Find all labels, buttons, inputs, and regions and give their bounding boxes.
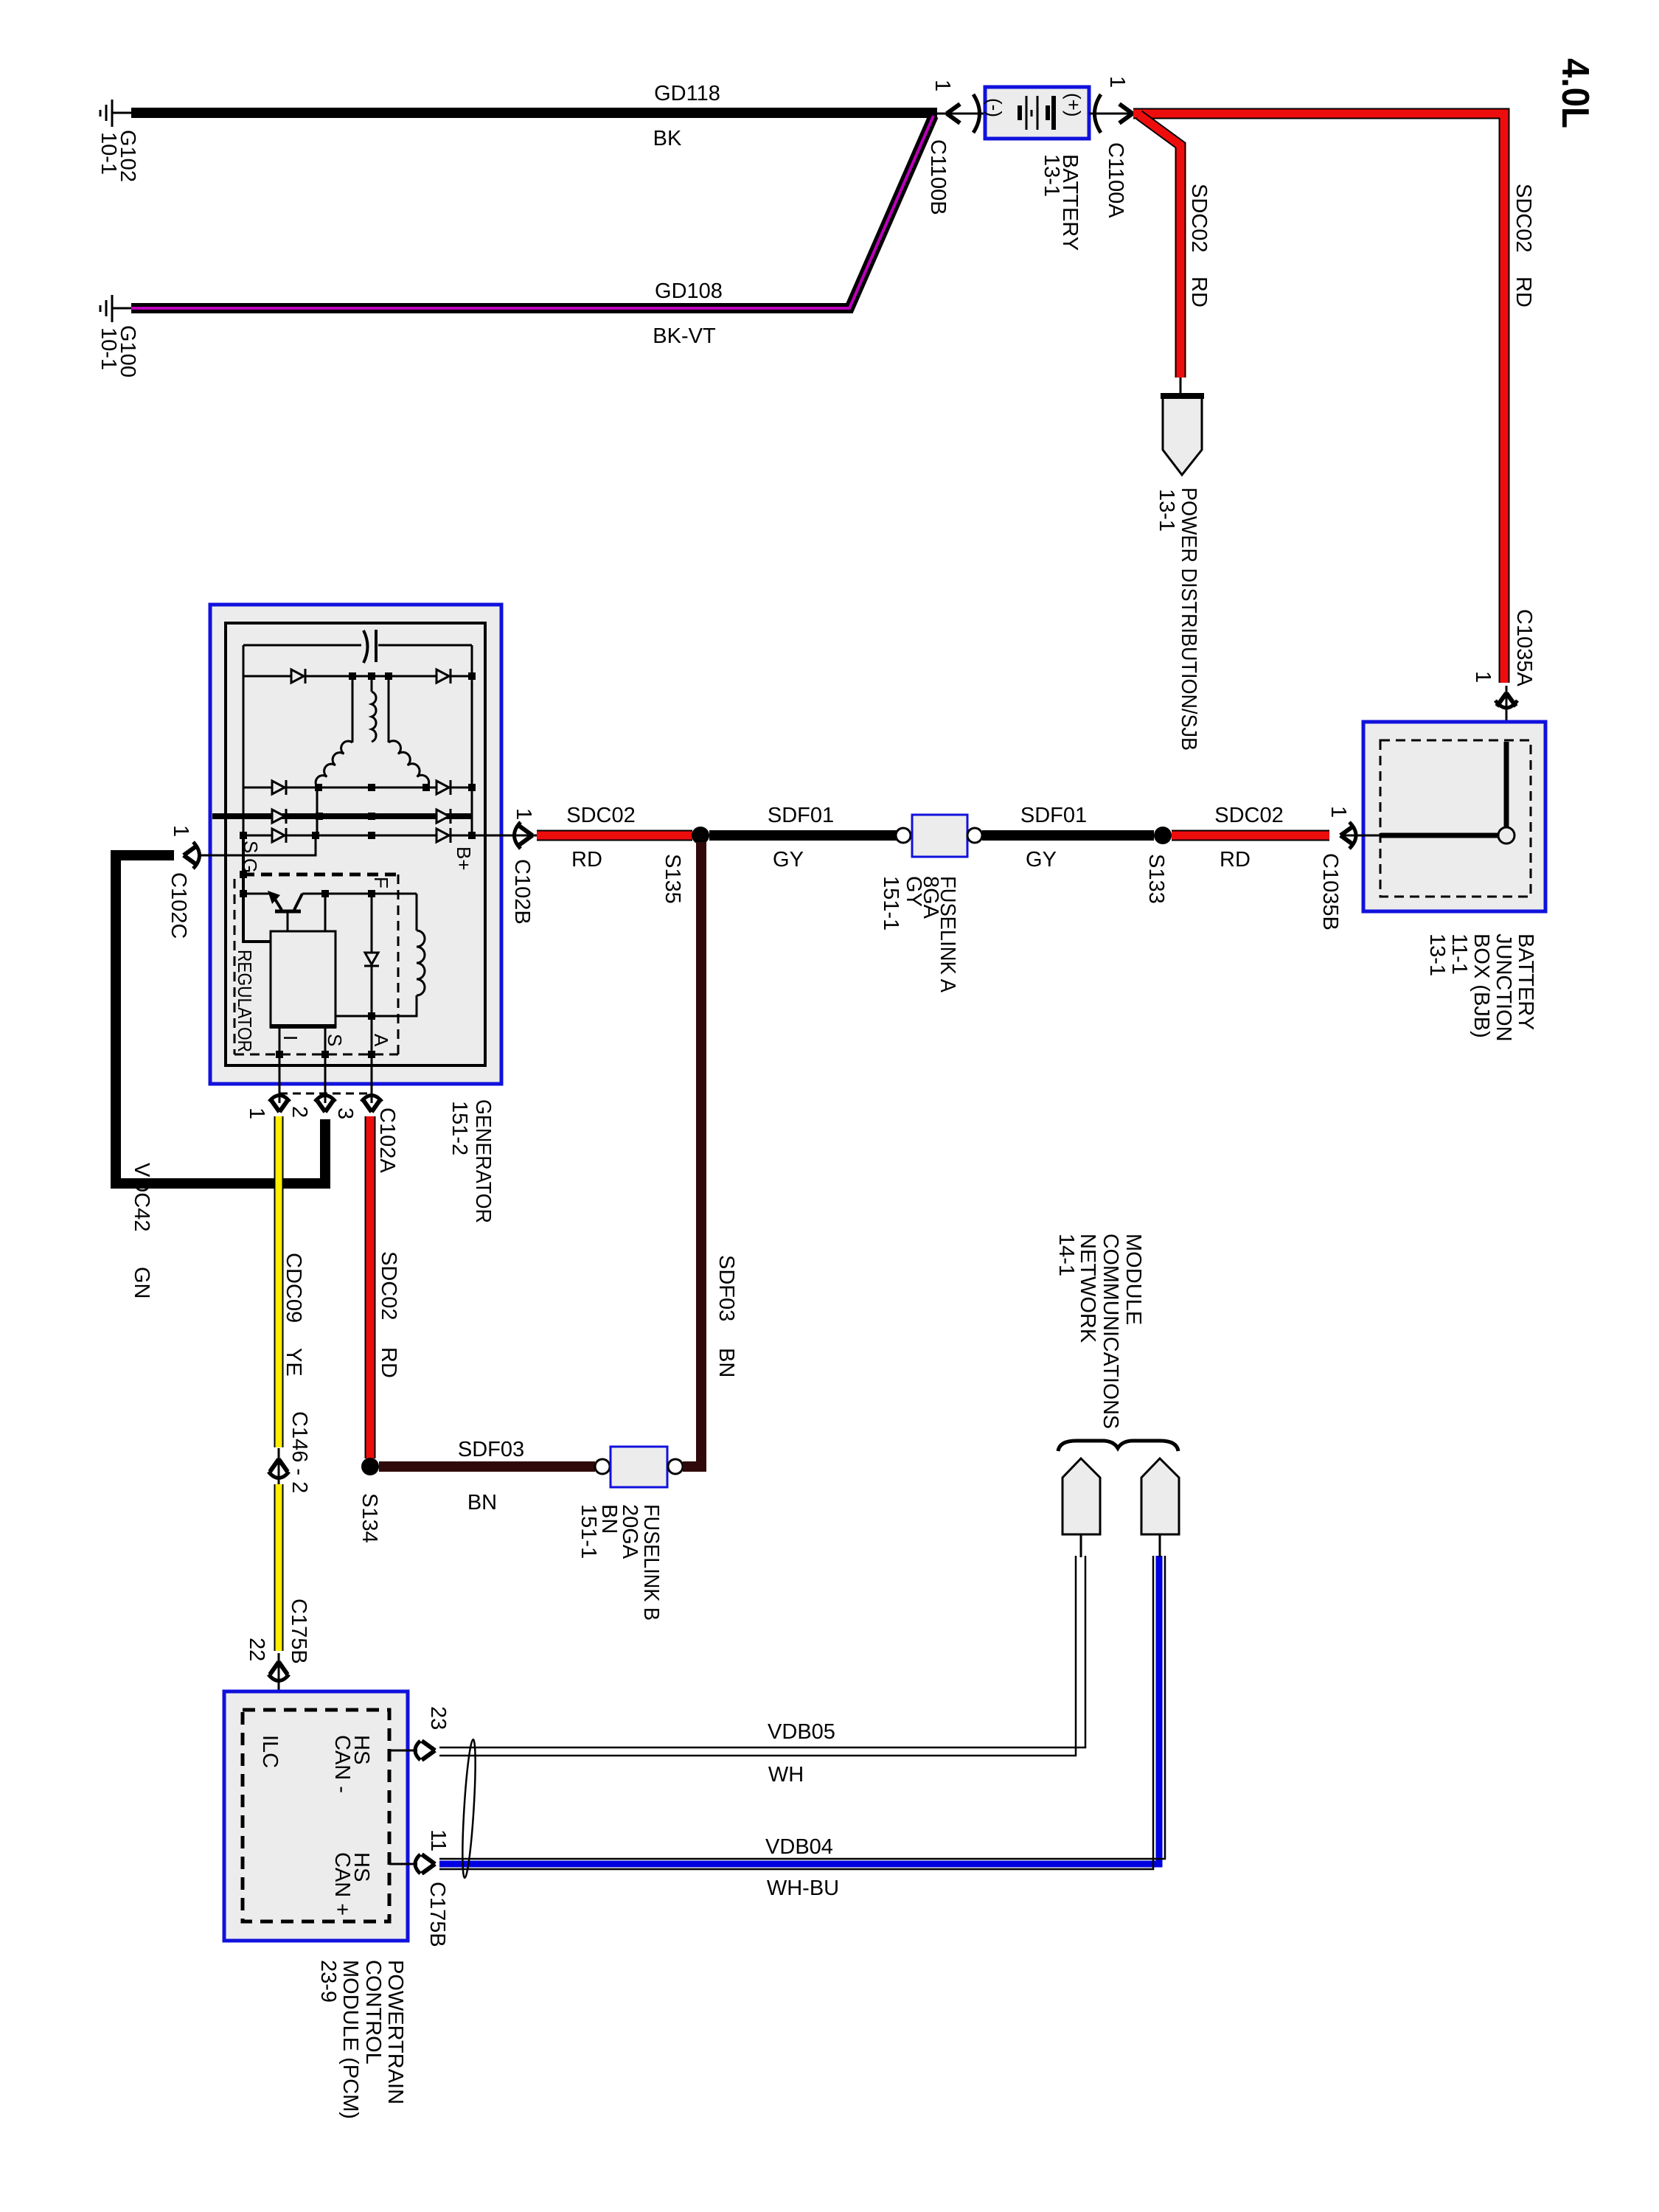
wire SDF03 BN S134 to fuselink B — [379, 1461, 595, 1472]
connector C146-2 — [268, 1459, 289, 1478]
svg-text:BK-VT: BK-VT — [653, 324, 716, 348]
svg-text:GN: GN — [130, 1267, 153, 1299]
brace — [1058, 1441, 1178, 1451]
svg-text:SDF03: SDF03 — [458, 1438, 524, 1461]
connector pin 2 arrow — [315, 1096, 335, 1113]
diode D5 — [272, 809, 286, 824]
svg-text:COMMUNICATIONS: COMMUNICATIONS — [1099, 1234, 1122, 1429]
svg-text:11: 11 — [426, 1829, 450, 1851]
wire SDF01 GY S135 to fuselink A — [709, 830, 897, 841]
svg-text:GY: GY — [773, 848, 804, 872]
svg-text:22: 22 — [245, 1638, 268, 1661]
svg-text:VDB05: VDB05 — [768, 1720, 835, 1744]
terminal network left — [1062, 1458, 1100, 1534]
node pin A — [368, 1051, 375, 1058]
wire BJB internal bus — [1504, 742, 1509, 829]
svg-text:GD108: GD108 — [655, 279, 723, 303]
svg-text:14-1: 14-1 — [1054, 1234, 1078, 1276]
wire GD118 BK — [131, 108, 937, 118]
svg-text:YE: YE — [282, 1348, 305, 1377]
box BATTERY JUNCTION BOX (BJB) — [1363, 722, 1545, 911]
connector pin 1 arrow — [269, 1096, 290, 1113]
connector C1035B — [1340, 822, 1356, 849]
svg-text:GY: GY — [1026, 848, 1057, 872]
svg-text:2: 2 — [288, 1106, 311, 1118]
regulator dashed boundary — [234, 874, 398, 1054]
svg-text:GY: GY — [902, 876, 925, 907]
node G junction — [240, 871, 247, 878]
svg-text:VDB04: VDB04 — [765, 1835, 833, 1859]
svg-text:13-1: 13-1 — [1155, 489, 1178, 532]
node row2 junctions — [315, 784, 476, 791]
wire pin 23 lead — [389, 1750, 417, 1752]
svg-text:1: 1 — [169, 825, 192, 837]
wire CDC09 YE C146-2 to C175B — [274, 1484, 284, 1651]
svg-text:1: 1 — [1105, 76, 1129, 88]
svg-text:BATTERY: BATTERY — [1514, 933, 1537, 1030]
wire stator tap to rows — [316, 787, 319, 835]
fuselink A — [896, 828, 911, 843]
svg-text:10-1: 10-1 — [97, 327, 120, 370]
diode D4 — [437, 780, 451, 795]
wire — [1343, 835, 1380, 837]
wire GD108 BK-VT — [131, 116, 933, 308]
svg-text:S: S — [324, 1034, 346, 1046]
wire CDC09 YE pin1 to C146-2 — [274, 1116, 284, 1447]
node A junction — [368, 1012, 375, 1020]
capacitor C1 — [364, 630, 368, 663]
svg-text:RD: RD — [571, 848, 602, 872]
wire VDB04 WH-BU — [439, 1556, 1159, 1864]
svg-text:GD118: GD118 — [654, 82, 720, 105]
svg-text:1: 1 — [1471, 671, 1495, 683]
svg-text:1: 1 — [512, 808, 535, 820]
diode D3 — [272, 780, 286, 795]
svg-text:GENERATOR: GENERATOR — [471, 1099, 495, 1223]
wire pin 11 lead — [389, 1863, 417, 1865]
node S133 — [1154, 827, 1172, 844]
svg-text:C146 - 2: C146 - 2 — [288, 1411, 311, 1493]
wire VDB05 WH — [439, 1556, 1081, 1752]
node BJB terminal circle — [1498, 827, 1514, 844]
wire VDC42 GN — [116, 855, 325, 1183]
connector pin 3 arrow — [361, 1096, 382, 1113]
svg-text:POWER DISTRIBUTION/SJB: POWER DISTRIBUTION/SJB — [1177, 487, 1200, 751]
svg-text:C175B: C175B — [425, 1882, 449, 1947]
diode D2 — [437, 669, 451, 684]
svg-text:RD: RD — [377, 1347, 400, 1378]
connector C102 dashed — [279, 1093, 372, 1095]
svg-text:(+): (+) — [1062, 93, 1085, 117]
svg-text:MODULE: MODULE — [1121, 1234, 1145, 1325]
node S135 — [692, 827, 709, 844]
diode D1 — [291, 669, 305, 684]
connector C1035A — [1495, 686, 1517, 742]
diode D6 — [437, 809, 451, 824]
svg-text:SDC02: SDC02 — [566, 804, 636, 827]
connector C1100A — [1089, 94, 1135, 133]
ground G100 — [100, 295, 133, 322]
wire diode row 4 — [243, 835, 504, 837]
svg-text:1: 1 — [931, 80, 954, 91]
svg-text:BOX (BJB): BOX (BJB) — [1470, 933, 1493, 1038]
wire SDF03 BN fuselink B to S135 — [683, 842, 701, 1467]
wire left rail to regulator — [243, 835, 271, 942]
svg-text:C1100B: C1100B — [926, 139, 950, 215]
svg-text:S134: S134 — [358, 1493, 381, 1543]
wire S pin drop — [324, 894, 327, 931]
terminal POWER DISTRIBUTION/SJB — [1163, 396, 1202, 475]
svg-text:CAN +: CAN + — [330, 1852, 354, 1916]
svg-text:151-1: 151-1 — [577, 1504, 600, 1559]
wire diode row 3 (thick) — [212, 813, 472, 819]
wire SDF01 GY fuselink A to S133 — [982, 830, 1154, 841]
wire SDC02 RD generator to S135 — [537, 830, 692, 841]
winding L3 (right) — [389, 741, 429, 788]
svg-text:A: A — [370, 1034, 392, 1047]
svg-text:SDF01: SDF01 — [768, 804, 834, 827]
ground G102 — [100, 100, 133, 127]
svg-text:CDC09: CDC09 — [282, 1253, 305, 1323]
wire SDC02 RD pin3 to S134 — [365, 1116, 376, 1458]
svg-text:CAN -: CAN - — [330, 1735, 354, 1793]
twisted pair symbol — [460, 1739, 478, 1878]
svg-text:WH-BU: WH-BU — [767, 1877, 839, 1900]
svg-text:C1035A: C1035A — [1512, 609, 1536, 686]
node F junctions — [321, 890, 329, 897]
svg-text:C102B: C102B — [510, 859, 534, 925]
wire diode row 2 — [243, 787, 472, 789]
svg-text:SDF01: SDF01 — [1020, 804, 1087, 827]
svg-text:SDC02: SDC02 — [377, 1251, 400, 1321]
svg-text:FUSELINK B: FUSELINK B — [639, 1504, 663, 1621]
node pin I — [276, 1051, 283, 1058]
svg-text:3: 3 — [333, 1107, 357, 1119]
svg-text:C175B: C175B — [287, 1599, 310, 1664]
transistor Q1 — [272, 894, 302, 931]
svg-text:RD: RD — [1220, 848, 1251, 872]
terminal network right — [1141, 1458, 1179, 1534]
wire G dashed line — [243, 873, 398, 877]
diode D9 — [371, 894, 373, 1054]
node row3 junctions — [316, 813, 375, 820]
svg-text:1: 1 — [1326, 806, 1350, 818]
svg-text:RD: RD — [1187, 276, 1211, 307]
connector C1100B — [937, 94, 985, 133]
svg-text:BK: BK — [653, 127, 682, 150]
svg-text:JUNCTION: JUNCTION — [1492, 933, 1515, 1042]
svg-text:SDC02: SDC02 — [1214, 804, 1284, 827]
node pin S — [321, 1051, 329, 1058]
node row1 junctions — [349, 672, 476, 680]
svg-text:C1035B: C1035B — [1318, 853, 1342, 931]
svg-text:I: I — [279, 1035, 302, 1040]
connector pin 23 arrow — [415, 1741, 435, 1760]
wire stator taps — [352, 676, 354, 742]
svg-text:1: 1 — [245, 1107, 268, 1119]
diode D7 — [272, 828, 286, 843]
regulator box — [271, 931, 335, 1027]
svg-text:13-1: 13-1 — [1425, 933, 1449, 976]
wire S line to C102C — [198, 835, 316, 855]
svg-text:23: 23 — [426, 1706, 450, 1730]
svg-text:VDC42: VDC42 — [130, 1163, 153, 1232]
svg-text:B+: B+ — [453, 846, 475, 871]
wire diode row 1 — [243, 675, 472, 678]
svg-text:S135: S135 — [661, 854, 684, 904]
connector C102B — [504, 822, 537, 849]
svg-text:SDC02: SDC02 — [1512, 184, 1535, 253]
node S134 — [361, 1458, 379, 1475]
box ILC dashed — [243, 1710, 389, 1921]
svg-text:SDC02: SDC02 — [1187, 184, 1211, 253]
svg-text:151-2: 151-2 — [448, 1101, 471, 1155]
wire regulator pin leads — [279, 1027, 281, 1103]
box generator inner case — [226, 623, 485, 1065]
svg-text:C102A: C102A — [375, 1107, 399, 1173]
wire — [1180, 378, 1182, 395]
wire rectifier frame — [243, 645, 472, 835]
connector C102C — [184, 842, 200, 869]
fuselink B — [595, 1459, 610, 1474]
svg-text:(-): (-) — [984, 98, 1006, 117]
svg-text:11-1: 11-1 — [1447, 933, 1471, 975]
winding L4 field coil — [416, 894, 418, 931]
connector C175B (pin 22) — [268, 1653, 289, 1710]
svg-text:151-1: 151-1 — [879, 876, 902, 931]
svg-text:MODULE (PCM): MODULE (PCM) — [338, 1960, 362, 2119]
svg-text:S133: S133 — [1144, 854, 1168, 904]
box GENERATOR outer — [210, 605, 501, 1084]
svg-text:23-9: 23-9 — [316, 1960, 340, 2003]
svg-text:POWERTRAIN: POWERTRAIN — [383, 1960, 407, 2104]
svg-text:NETWORK: NETWORK — [1076, 1234, 1099, 1343]
winding L1 (center) — [371, 676, 373, 692]
wire F line — [243, 893, 271, 895]
svg-text:C1100A: C1100A — [1104, 142, 1127, 218]
svg-text:F: F — [370, 877, 392, 888]
diode D8 — [437, 828, 451, 843]
svg-text:10-1: 10-1 — [97, 132, 120, 175]
wire SDC02 RD S133 to C1035B — [1172, 830, 1329, 841]
connector pin 11 arrow — [415, 1854, 435, 1874]
box POWERTRAIN CONTROL MODULE (PCM) — [224, 1691, 408, 1941]
battery B1 — [985, 87, 1089, 139]
svg-text:BN: BN — [714, 1348, 738, 1377]
svg-text:CONTROL: CONTROL — [361, 1960, 385, 2065]
node F line junction at rail — [240, 890, 247, 897]
node row4 junctions — [240, 832, 476, 839]
svg-text:SDF03: SDF03 — [714, 1255, 738, 1321]
svg-text:ILC: ILC — [258, 1735, 282, 1768]
svg-text:13-1: 13-1 — [1040, 154, 1063, 197]
svg-text:REGULATOR: REGULATOR — [234, 950, 256, 1052]
wire SDC02 RD branch to SJB — [1139, 115, 1180, 378]
wire SDC02 RD battery to BJB — [1133, 114, 1504, 683]
svg-text:RD: RD — [1512, 276, 1535, 307]
svg-text:WH: WH — [768, 1763, 804, 1787]
svg-text:BN: BN — [467, 1491, 497, 1514]
svg-text:C102C: C102C — [167, 872, 190, 939]
winding L2 (left) — [316, 741, 352, 788]
svg-text:4.0L: 4.0L — [1554, 58, 1596, 128]
